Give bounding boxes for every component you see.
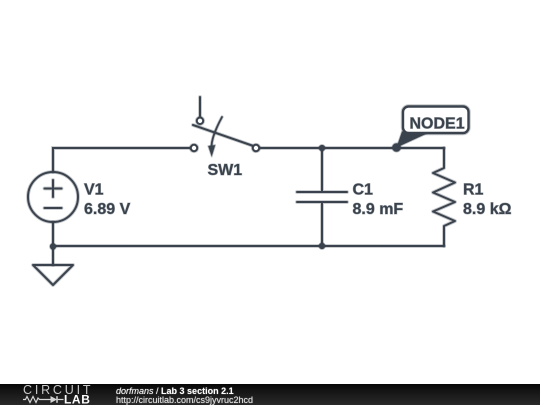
svg-text:R1: R1 xyxy=(463,182,484,199)
svg-text:V1: V1 xyxy=(84,182,104,199)
svg-text:8.9 mF: 8.9 mF xyxy=(353,201,404,218)
svg-text:SW1: SW1 xyxy=(208,162,243,179)
svg-text:NODE1: NODE1 xyxy=(410,116,465,133)
svg-text:6.89 V: 6.89 V xyxy=(84,201,131,218)
svg-text:LAB: LAB xyxy=(64,393,90,405)
svg-text:C1: C1 xyxy=(353,182,374,199)
svg-text:8.9 kΩ: 8.9 kΩ xyxy=(463,201,512,218)
